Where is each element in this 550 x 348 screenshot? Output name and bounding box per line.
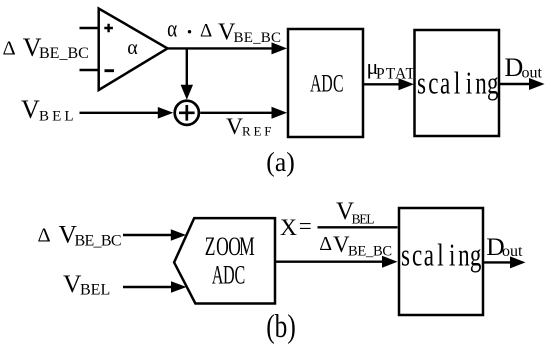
- svg-text:scaling: scaling: [417, 66, 499, 102]
- svg-text:BE_BC: BE_BC: [75, 233, 122, 250]
- wire: scaling output with arrowhead (fig b): [484, 261, 511, 263]
- op-amp minus input marker: [105, 69, 115, 72]
- svg-text:scaling: scaling: [401, 238, 481, 274]
- svg-text:BE_BC: BE_BC: [39, 45, 89, 62]
- op-amp A1 (gain-alpha amplifier, fig a): [99, 9, 168, 91]
- op-amp plus input marker: [104, 24, 113, 33]
- svg-text:X: X: [280, 215, 297, 241]
- wire: vertical branch down to summer with arrowhead: [186, 48, 188, 87]
- summer S1 (adder circle with plus): [175, 101, 199, 125]
- svg-text:Δ: Δ: [3, 37, 16, 59]
- svg-text:out: out: [522, 64, 543, 81]
- svg-text:BE_BC: BE_BC: [348, 244, 392, 260]
- wire: ADC to scaling with arrowhead (fig a): [364, 83, 401, 85]
- wire: summer to ADC with arrowhead: [200, 112, 274, 114]
- wire: zoom ADC output to scaling with arrowhead (fig b): [275, 261, 384, 263]
- svg-text:D: D: [505, 53, 524, 82]
- wire: op-amp output to ADC with arrowhead: [168, 47, 275, 49]
- block U4: scaling (fig b): [399, 208, 483, 315]
- svg-text:α: α: [127, 37, 138, 59]
- svg-text:(a): (a): [266, 147, 294, 177]
- svg-text:ADC: ADC: [212, 261, 245, 290]
- svg-text:Δ: Δ: [38, 224, 51, 246]
- svg-text:ADC: ADC: [310, 69, 344, 98]
- wire: V_BEL to summer with arrowhead: [80, 112, 161, 114]
- svg-text:V: V: [226, 114, 243, 140]
- wire: top input to op-amp: [80, 27, 100, 29]
- block U3: ZOOM ADC (pentagon): [174, 218, 275, 303]
- svg-text:PTAT: PTAT: [376, 65, 416, 82]
- svg-text:V: V: [21, 95, 40, 124]
- block U2: scaling (fig a): [415, 30, 500, 136]
- wire: scaling output with arrowhead (fig a): [500, 83, 530, 85]
- svg-text:BEL: BEL: [39, 109, 74, 125]
- wire: V_BEL into zoom ADC with arrowhead: [123, 286, 173, 288]
- wire: delta V_BE_BC into zoom ADC with arrowhead: [123, 234, 173, 236]
- block U1: ADC (fig a): [288, 29, 363, 137]
- svg-text:(b): (b): [266, 309, 296, 345]
- svg-text:Δ: Δ: [319, 233, 332, 255]
- svg-text:BEL: BEL: [352, 212, 375, 227]
- svg-text:REF: REF: [242, 124, 272, 139]
- fraction bar: [318, 226, 398, 228]
- svg-text:=: =: [299, 214, 312, 239]
- svg-text:Δ: Δ: [200, 21, 212, 42]
- svg-text:BEL: BEL: [80, 281, 110, 298]
- wire: bottom input to op-amp: [80, 69, 100, 71]
- svg-text:α: α: [167, 16, 177, 43]
- svg-text:ZOOM: ZOOM: [205, 231, 255, 261]
